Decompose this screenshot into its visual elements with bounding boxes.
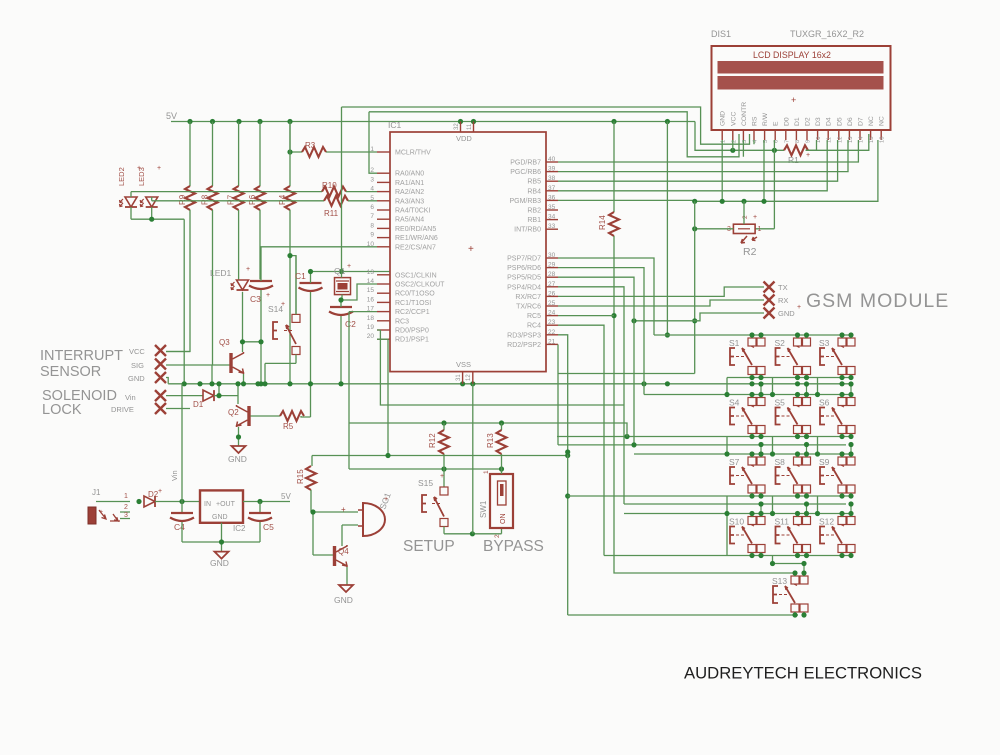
pin 7 RA5/AN4 [377,218,390,220]
voltage regulator IC2 [200,490,243,522]
pin SIG cross [155,359,166,370]
svg-text:RC4: RC4 [527,323,541,330]
svg-text:40: 40 [548,156,556,163]
svg-text:S11: S11 [775,517,790,527]
wire R15 bottom to buzzer plus [311,490,358,512]
svg-text:R11: R11 [324,209,339,218]
svg-text:RC5: RC5 [527,313,541,320]
pin 19 RD0/PSP0 [377,329,390,331]
wire D2 to IC2 IN [155,501,200,503]
svg-text:1: 1 [483,470,490,474]
resistor R6 [255,186,265,210]
svg-text:GND: GND [334,595,353,605]
wire R9 bottom to interrupt VCC [166,210,190,352]
wire pin27 to keypad row4 [558,287,624,504]
pin 17 RC2/CCP1 [377,311,390,313]
svg-text:10: 10 [367,241,375,248]
transistor Q3 [229,353,232,373]
svg-text:20: 20 [367,333,375,340]
wire R12 R13 bottom junction line [349,312,502,469]
svg-text:OSC2/CLKOUT: OSC2/CLKOUT [395,282,445,289]
svg-text:R8: R8 [201,194,210,205]
wire IC right staircase to LCD D4-D7 [558,140,858,162]
svg-text:S4: S4 [729,398,740,408]
pin 9 RE1/WR/AN6 [377,237,390,239]
svg-text:IC2: IC2 [233,524,246,533]
capacitor C1 [299,283,323,291]
wire Q4 emitter to ground [346,567,348,585]
svg-text:D4: D4 [826,117,833,126]
svg-text:+: + [157,165,161,172]
wire Q4 base from R15 net [313,512,333,555]
svg-text:VCC: VCC [129,347,145,356]
pin 14 OSC2/CLKOUT [377,283,390,285]
wire R5 leads [251,416,311,417]
svg-text:RE0/RD/AN5: RE0/RD/AN5 [395,226,436,233]
svg-text:D0: D0 [783,117,790,126]
svg-text:GND: GND [212,514,228,521]
wire pin24 to R14 S13 net [558,315,614,317]
op-amp DIS1 LCD display box [712,46,891,130]
svg-text:RC0/T1OSO: RC0/T1OSO [395,291,435,298]
resistor R7 [234,186,244,210]
svg-text:+: + [806,152,810,159]
svg-text:IC1: IC1 [388,120,402,130]
svg-text:35: 35 [548,204,556,211]
wire LCD VCC line dots and R1 tail [806,140,817,150]
svg-text:RC2/CCP1: RC2/CCP1 [395,309,430,316]
svg-text:S6: S6 [819,398,830,408]
pin 28 PSP5/RD5 [546,276,558,278]
resistor R15 [311,456,313,467]
svg-text:27: 27 [548,281,556,288]
svg-text:D3: D3 [815,117,822,126]
wire R10 to RA2 pin [346,191,377,193]
svg-text:6: 6 [370,204,374,211]
svg-text:+: + [440,473,444,480]
pot R2 wiper arrows [741,236,747,243]
pin 5 RA3/AN3 [377,200,390,202]
pin LCD 4 RS [753,130,755,140]
LED LED2 [125,197,137,207]
resistor R5 [280,411,304,421]
pin 33 INT/RB0 [546,228,558,230]
svg-text:RA3/AN3: RA3/AN3 [395,198,424,205]
wire keypad S13 bottom [568,614,798,616]
wire LED3 to R11 line [152,197,324,201]
switch S15 SETUP [443,469,445,487]
wire LCD pin4 net (top staircase outer) [342,107,750,144]
svg-text:37: 37 [548,185,556,192]
svg-text:14: 14 [367,278,375,285]
svg-text:R1: R1 [788,155,799,165]
connector J1 power jack [88,507,96,524]
svg-text:R13: R13 [486,433,495,448]
pin 1 MCLR/THV [377,151,390,153]
pin Vin cross [155,390,166,401]
svg-text:RA0/AN0: RA0/AN0 [395,171,424,178]
svg-text:RS: RS [752,116,759,126]
switch S5 [794,398,802,406]
wire R14 bottom down to S13 row [614,236,795,573]
wire R6 bottom to RE2 pin and C3 [260,210,377,279]
wire RX net [558,300,764,306]
svg-text:15: 15 [367,287,375,294]
svg-text:+OUT: +OUT [216,501,236,508]
resistor R12 [443,423,445,469]
svg-text:C3: C3 [250,294,261,304]
svg-text:RD2/PSP2: RD2/PSP2 [507,342,541,349]
svg-text:RX: RX [778,296,788,305]
wire 5V drop right to keypad row1 [666,122,668,336]
pin VCC cross [155,345,166,356]
wire 5V to R7 [238,122,240,187]
svg-text:R/W: R/W [762,112,769,126]
switch S14 [292,314,300,322]
pin VDD top pins 32 11 [461,122,474,133]
pin 3 RA1/AN1 [377,181,390,183]
svg-text:R14: R14 [598,215,607,230]
svg-text:RD3/PSP3: RD3/PSP3 [507,332,541,339]
pin LCD 12 D5 [838,130,840,140]
svg-text:BYPASS: BYPASS [483,538,544,555]
wire R8 bottom to SIG/Q3 base [166,210,230,384]
wire R13 bottom to SW1 top [501,469,503,474]
wire S15 bottom to SW1 bottom [444,527,502,534]
wire keypad row3 lines [558,445,852,454]
svg-text:1: 1 [370,146,374,153]
switch S2 [794,338,802,346]
buzzer SG1 [363,503,385,536]
wire R3 to 5V rail [290,122,377,153]
svg-text:LED2: LED2 [117,167,126,186]
switch S4 [748,398,756,406]
transistor Q2 [247,406,250,426]
ground symbol below Q2 [232,446,246,453]
svg-text:S12: S12 [819,517,834,527]
wire keypad row4 lines [624,504,852,514]
pin LCD 7 D0 [785,130,787,140]
wire LCD pin3 net (top staircase inner) [369,112,739,173]
svg-text:+: + [468,244,474,255]
pin 29 PSP6/RD6 [546,267,558,269]
switch S10 [748,517,756,525]
svg-text:C5: C5 [263,522,274,532]
pin LCD 11 D4 [827,130,829,140]
svg-text:LCD DISPLAY 16x2: LCD DISPLAY 16x2 [753,50,831,60]
svg-text:RA1/AN1: RA1/AN1 [395,180,424,187]
svg-text:S7: S7 [729,457,740,467]
svg-text:R9: R9 [178,194,187,205]
wire 5V rail junction dots [187,119,670,124]
switch S11 [794,517,802,525]
svg-text:+: + [158,488,162,495]
svg-text:PGD/RB7: PGD/RB7 [510,160,541,167]
wire pin30 to keypad row1 [558,258,654,335]
pin 21 RD2/PSP2 [546,343,558,345]
wire DRIVE stub [166,408,190,410]
switch SW1 BYPASS slide [490,474,513,528]
svg-text:NC: NC [868,116,875,126]
svg-text:8: 8 [795,140,801,143]
resistor R14 [613,122,615,213]
svg-text:SENSOR: SENSOR [40,364,101,380]
svg-text:39: 39 [548,166,556,173]
wire pin22 to S13 bottom [558,335,568,615]
svg-text:S1: S1 [729,338,740,348]
svg-text:RD1/PSP1: RD1/PSP1 [395,337,429,344]
pin 15 RC0/T1OSO [377,292,390,294]
wire pin36 line to pot net [558,140,878,201]
svg-text:TX: TX [778,283,788,292]
svg-text:31: 31 [456,374,462,381]
resistor R1 [784,145,808,155]
LCD display bar line2 [718,76,884,90]
capacitor C2 [329,307,353,315]
svg-text:Q2: Q2 [228,408,239,417]
svg-text:GND: GND [720,111,727,126]
wire pot left to GSM vertical [695,228,734,230]
switch S8 [794,457,802,465]
wire Q3 collector to LED1 [242,292,244,352]
svg-text:Vin: Vin [170,470,179,481]
svg-text:S15: S15 [418,478,433,488]
wire Vin to D1 [166,395,203,397]
LED LED3 [146,197,158,207]
svg-text:J1: J1 [92,488,101,497]
pin LCD 6 E [774,130,776,140]
svg-text:Q4: Q4 [338,547,349,556]
wire J1 to D2 [136,499,141,504]
wire 5V to R9 [189,122,191,187]
svg-text:1: 1 [758,226,762,233]
svg-text:R5: R5 [283,422,294,431]
svg-text:Q1: Q1 [334,266,346,276]
svg-text:CONTR: CONTR [741,102,748,126]
wire GND net [634,313,764,321]
pin 30 PSP7/RD7 [546,257,558,259]
pin 27 PSP4/RD4 [546,286,558,288]
wire buzzer minus to Q4 collector [342,525,358,546]
wire LCD pin1 down [721,140,723,201]
wire LCD pin5 down [763,140,765,201]
ground symbol below Q4 [339,585,353,592]
svg-text:4: 4 [370,186,374,193]
pin 36 PGM/RB3 [546,199,558,201]
svg-text:S5: S5 [775,398,786,408]
pin LCD 16 NC [880,130,882,140]
svg-text:C2: C2 [345,319,356,329]
svg-text:TUXGR_16X2_R2: TUXGR_16X2_R2 [790,29,864,39]
potentiometer R2 [733,224,755,233]
svg-text:C4: C4 [174,522,185,532]
svg-text:S10: S10 [729,517,744,527]
pin LCD 13 D6 [848,130,850,140]
wire pin29 to keypad row2 [558,268,644,395]
svg-text:VSS: VSS [456,360,471,369]
svg-text:PSP6/RD6: PSP6/RD6 [507,265,541,272]
svg-text:15: 15 [869,137,875,143]
wire C2 bottom to bus [340,316,342,384]
svg-text:PGC/RB6: PGC/RB6 [510,169,541,176]
svg-text:RA4/T0CKI: RA4/T0CKI [395,208,430,215]
pin 16 RC1/T1OSI [377,301,390,303]
svg-text:D1: D1 [794,117,801,126]
svg-text:D5: D5 [836,117,843,126]
svg-text:GSM MODULE: GSM MODULE [806,290,949,312]
svg-text:NC: NC [879,116,886,126]
switch S1 [748,338,756,346]
wire keypad S13 lines [773,563,805,565]
svg-text:16: 16 [880,137,886,143]
svg-text:R12: R12 [428,433,437,448]
svg-text:LOCK: LOCK [42,402,82,418]
pin 18 RC3 [377,320,390,322]
pin 26 RX/RC7 [546,295,558,297]
svg-text:SW1: SW1 [479,500,488,518]
diode D1 [203,390,214,401]
wire pin23 to row4 bottom [558,325,604,555]
svg-text:GND: GND [778,309,795,318]
diode D2 [144,496,155,507]
wire crystal bottom to OSC2 pin 14 [342,284,377,300]
wire pin21 to row3 upper line [557,344,559,445]
svg-text:RB4: RB4 [527,188,541,195]
svg-text:+: + [797,304,801,311]
crystal Q1 [335,278,351,295]
wire LCD pin6 down to pot [755,140,774,229]
svg-text:R4: R4 [278,194,287,205]
pin LCD 1 GND [721,130,723,140]
svg-text:RE1/WR/AN6: RE1/WR/AN6 [395,235,438,242]
wire 5V to LCD VCC [695,122,869,151]
wire GSM vertical and VSS link [558,201,695,373]
op-amp IC1 main microcontroller box [390,132,546,372]
svg-text:14: 14 [859,136,865,143]
wire R4 bottom to S14 and bus [290,210,296,384]
svg-text:7: 7 [784,140,790,143]
wire keypad row1 bottom [727,377,852,379]
wire pin28 to keypad row3 [558,277,634,444]
wire keypad row3 bottom [568,495,852,497]
svg-text:S2: S2 [775,338,786,348]
svg-text:S9: S9 [819,457,830,467]
capacitor C3 [249,281,273,289]
svg-text:S3: S3 [819,338,830,348]
svg-text:22: 22 [548,329,556,336]
svg-text:RA2/AN2: RA2/AN2 [395,189,424,196]
wire R7 bottom to LED1 [238,210,240,279]
pin 39 PGC/RB6 [546,171,558,173]
svg-text:C1: C1 [295,271,306,281]
wire C1 bottom through bus to R5 [310,292,312,417]
svg-text:33: 33 [548,223,556,230]
svg-text:R15: R15 [296,469,305,484]
pin LCD 10 D3 [817,130,819,140]
wire 5V to R6 [259,122,261,187]
svg-text:+: + [281,301,285,308]
pin LCD 5 R/W [764,130,766,140]
svg-text:24: 24 [548,310,556,317]
wire LED2 to R10 line [131,192,322,197]
pin LCD 2 VCC [732,130,734,140]
wire pot wiper up [743,201,745,224]
wire Q3 emitter to bus [243,374,245,384]
pin 38 RB5 [546,180,558,182]
wire LCD pin3 pin4 long stubs [743,140,754,157]
svg-text:D7: D7 [858,117,865,126]
svg-text:RD0/PSP0: RD0/PSP0 [395,328,429,335]
svg-text:+: + [266,292,270,299]
svg-text:+: + [246,266,250,273]
svg-text:16: 16 [367,296,375,303]
svg-text:D1: D1 [193,400,204,409]
wire supply ground bus [182,522,260,552]
pin LCD 8 D1 [795,130,797,140]
wire pin17 RC2 down to R12 R13 line [349,311,377,313]
pin LCD 3 CONTR [742,130,744,140]
svg-text:RC1/T1OSI: RC1/T1OSI [395,300,431,307]
svg-text:+: + [137,165,141,172]
svg-text:INTERRUPT: INTERRUPT [40,348,123,364]
svg-text:+: + [384,496,388,503]
pin 2 RA0/AN0 [377,172,390,174]
node 5V power rail [171,121,695,123]
wire IC2 out to 5V [243,501,290,503]
pin 10 RE2/CS/AN7 [377,246,390,248]
svg-text:3: 3 [370,176,374,183]
pin 40 PGD/RB7 [546,161,558,163]
svg-text:36: 36 [548,194,556,201]
wire 5V to R4 [289,122,291,187]
pin GND cross [155,372,166,383]
svg-text:PGM/RB3: PGM/RB3 [509,198,541,205]
switch S6 [838,398,846,406]
pin GND cross [764,308,775,319]
svg-text:29: 29 [548,262,556,269]
switch S13 [791,576,799,584]
resistor R11 [324,196,348,206]
svg-text:INT/RB0: INT/RB0 [514,227,541,234]
wire keypad row2 bottom [557,436,852,438]
pin LCD 14 D7 [859,130,861,140]
pin DRIVE cross [155,403,166,414]
svg-text:13: 13 [848,137,854,143]
pin 6 RA4/T0CKI [377,209,390,211]
svg-text:5V: 5V [166,111,177,121]
wire R11 to RA3 pin [348,200,377,202]
LCD display bar line1 [718,61,884,74]
svg-text:7: 7 [370,213,374,220]
switch S7 [748,457,756,465]
svg-text:SIG: SIG [131,361,144,370]
wire VCC pin [166,351,190,353]
svg-text:34: 34 [548,214,556,221]
svg-text:9: 9 [370,232,374,239]
svg-text:GND: GND [128,374,145,383]
wire keypad row1 line [654,334,852,336]
svg-text:GND: GND [228,454,247,464]
svg-text:PSP7/RD7: PSP7/RD7 [507,256,541,263]
svg-text:12: 12 [466,374,472,381]
svg-text:RX/RC7: RX/RC7 [515,294,541,301]
svg-text:LED1: LED1 [210,268,232,278]
svg-text:DIS1: DIS1 [711,29,731,39]
resistor R3 [302,147,326,157]
pin RX cross [764,295,775,306]
svg-text:Vin: Vin [125,393,136,402]
svg-text:Q3: Q3 [219,338,230,347]
